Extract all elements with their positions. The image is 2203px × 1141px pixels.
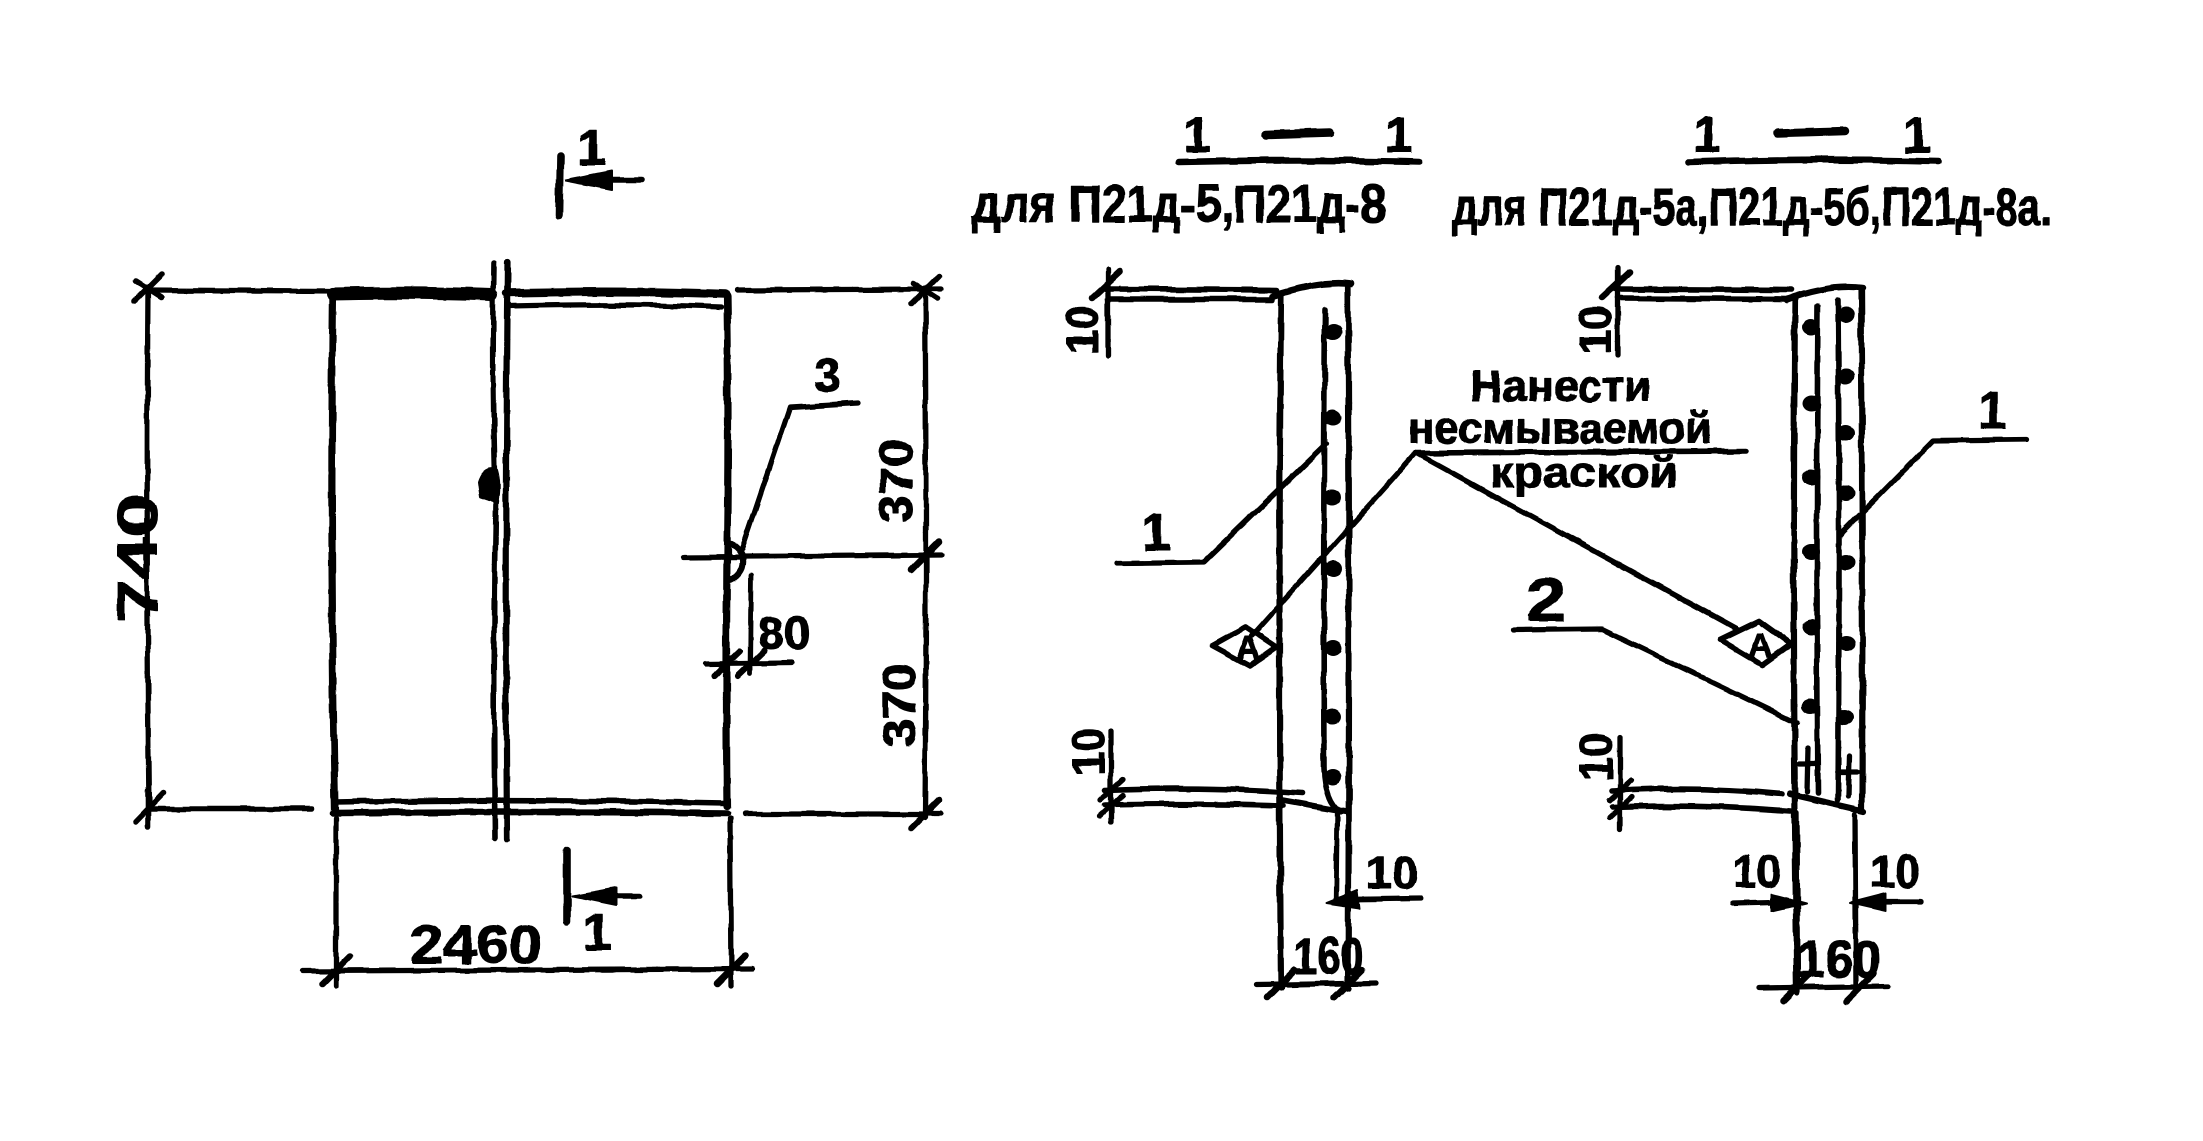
- tick 160 right: [1334, 970, 1362, 998]
- tick 370 bottom: [911, 800, 939, 828]
- break line left: [493, 263, 496, 838]
- dim 10 bottom right arrow (right section): [1884, 899, 1921, 904]
- section mark top: arrow: [608, 177, 642, 183]
- svg-text:для П21д-5,П21д-8: для П21д-5,П21д-8: [972, 175, 1386, 234]
- dim 10 bottom right: arrow: [1340, 898, 1420, 899]
- svg-text:1: 1: [1142, 504, 1171, 562]
- svg-text:1: 1: [1385, 107, 1413, 163]
- section right face: [1348, 285, 1349, 988]
- bottom extension double: [1105, 789, 1302, 793]
- right section top edge: [1786, 287, 1862, 300]
- extension mid through D: [683, 555, 941, 557]
- svg-text:740: 740: [106, 494, 170, 622]
- section mark bottom: arrow: [610, 893, 640, 899]
- svg-text:10: 10: [1062, 728, 1114, 776]
- svg-text:10: 10: [1733, 846, 1781, 897]
- ticks bottom-left 10: [1100, 779, 1123, 800]
- dim 80 extension vertical: [750, 575, 751, 674]
- svg-text:1: 1: [1183, 107, 1211, 163]
- svg-text:3: 3: [814, 350, 841, 403]
- extension line bottom left: [150, 806, 312, 812]
- svg-text:160: 160: [1294, 928, 1364, 986]
- mesh dots middle: [1323, 324, 1342, 785]
- diamond A right: [1720, 621, 1791, 665]
- tick 160 right-left: [1783, 973, 1811, 1001]
- tick 370 top: [911, 276, 939, 304]
- bottom extension verticals right: [1797, 812, 1798, 992]
- svg-text:1: 1: [1903, 107, 1931, 163]
- dim 2460 extension right: [730, 818, 731, 986]
- dim 10 top: line: [1105, 270, 1110, 355]
- svg-text:для П21д-5а,П21д-5б,П21д-8а.: для П21д-5а,П21д-5б,П21д-8а.: [1452, 178, 2052, 237]
- panel bottom edge lower: [333, 812, 727, 813]
- right section left face: [1794, 300, 1797, 993]
- mesh stub bottom: [1336, 812, 1337, 898]
- panel top edge right part lower: [509, 305, 721, 307]
- right section inner line 1: [1817, 306, 1818, 793]
- tick 80 left: [714, 651, 740, 676]
- bottom-left dim 10: vertical: [1108, 731, 1113, 822]
- break line right: [506, 262, 508, 840]
- tick 10 top right: [1602, 272, 1630, 298]
- section mark top: cut line: [559, 156, 560, 216]
- tick 160 right-right: [1846, 973, 1874, 1001]
- svg-text:1: 1: [577, 119, 606, 177]
- svg-text:A: A: [1236, 630, 1261, 668]
- panel top edge thick left part: [333, 293, 492, 295]
- tick 80 right: [738, 651, 764, 676]
- dim line 740 vertical: [147, 288, 149, 808]
- mesh end hooks right: [1799, 748, 1816, 792]
- svg-text:A: A: [1748, 627, 1773, 665]
- bottom-left dim 10 right: vertical: [1617, 737, 1622, 830]
- panel left edge: [332, 291, 335, 811]
- top extension double: [1106, 289, 1277, 290]
- section bottom edge: [1281, 800, 1348, 812]
- mesh dots right inner2 (right side): [1836, 307, 1855, 725]
- extension line top left: [148, 290, 333, 291]
- svg-text:160: 160: [1797, 931, 1881, 989]
- svg-text:10: 10: [1570, 733, 1622, 781]
- panel top edge right part upper: [507, 292, 725, 294]
- svg-text:2460: 2460: [410, 915, 542, 975]
- extension bottom right: [745, 811, 941, 816]
- tick 740 top: [134, 274, 162, 302]
- section left face: [1280, 294, 1282, 988]
- svg-text:1: 1: [583, 904, 612, 962]
- svg-text:10: 10: [1870, 846, 1920, 897]
- diamond A middle: [1212, 627, 1276, 666]
- tick 2460 right: [717, 956, 745, 984]
- right section bottom edge: [1790, 794, 1864, 811]
- svg-text:1: 1: [1693, 107, 1721, 163]
- dim 10 top right: line: [1615, 268, 1620, 355]
- right section right face: [1861, 288, 1862, 810]
- label 2 underline + leader: [1514, 629, 1797, 723]
- svg-text:10: 10: [1569, 306, 1621, 354]
- right section inner line 2: [1838, 301, 1839, 800]
- svg-text:1: 1: [1978, 382, 2007, 440]
- svg-text:370: 370: [870, 439, 922, 523]
- svg-text:10: 10: [1366, 847, 1418, 898]
- leader to right diamond: [1416, 453, 1738, 630]
- section mark bottom: cut line: [563, 850, 571, 922]
- bottom extension double right: [1612, 789, 1782, 794]
- tick 2460 left: [322, 956, 350, 984]
- tick 10 top: [1092, 272, 1120, 298]
- svg-text:2: 2: [1526, 566, 1566, 635]
- dim 2460 extension left: [333, 818, 338, 986]
- dim 2460 line: [302, 969, 752, 971]
- leader 1 right: line: [1840, 440, 2027, 535]
- panel right edge: [727, 296, 729, 806]
- leader 1 middle: line: [1117, 444, 1326, 563]
- extension top right: [737, 289, 941, 290]
- svg-text:10: 10: [1056, 306, 1108, 354]
- svg-text:краской: краской: [1490, 449, 1678, 497]
- svg-text:80: 80: [758, 608, 810, 659]
- dim 80 line: [705, 663, 792, 664]
- inner mesh line: [1324, 309, 1341, 812]
- leader 3 line: [742, 403, 858, 549]
- dim 160 right: line: [1760, 986, 1888, 988]
- panel bottom edge upper: [335, 801, 725, 803]
- header underline right: [1688, 160, 1938, 162]
- tick 370 mid: [911, 542, 939, 570]
- top extension double right: [1616, 289, 1791, 290]
- tick 160 left: [1267, 970, 1295, 998]
- dim 10 bottom left arrow (right section): [1732, 902, 1775, 903]
- svg-text:370: 370: [873, 663, 925, 747]
- ticks bottom-left 10 right: [1609, 780, 1632, 801]
- header underline middle: [1178, 161, 1419, 163]
- mesh dots right inner1 (left side): [1801, 319, 1820, 715]
- section top edge: [1272, 283, 1352, 296]
- dim 160: line: [1256, 983, 1376, 985]
- tick 740 bottom: [135, 790, 163, 827]
- leader to middle diamond: [1252, 453, 1416, 636]
- break flag: [479, 469, 499, 503]
- svg-text:несмываемой: несмываемой: [1408, 404, 1712, 453]
- dim 370-80-370 line vertical: [925, 288, 926, 818]
